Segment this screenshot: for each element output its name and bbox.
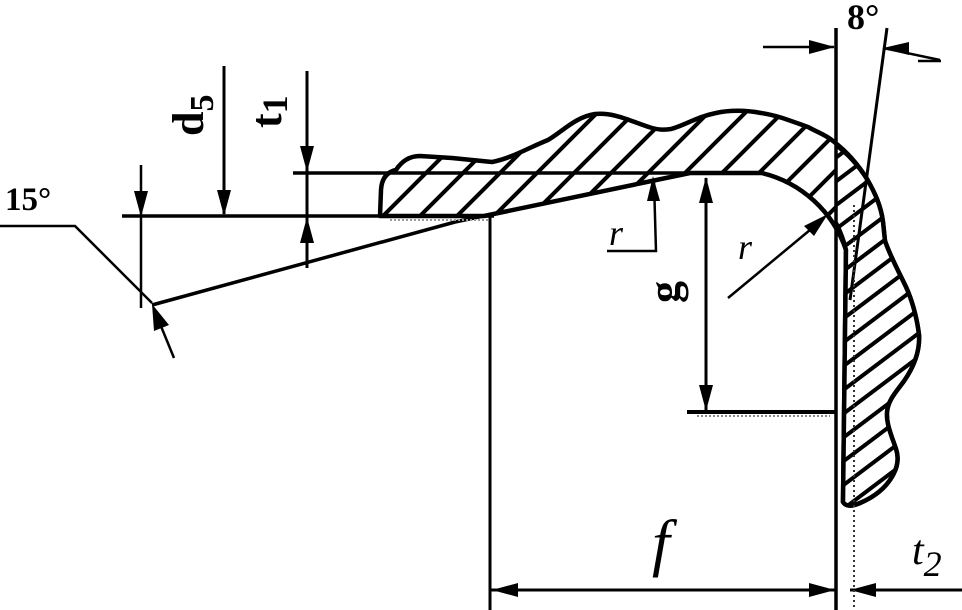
svg-text:g: g <box>640 281 689 303</box>
bead-seat 15-degree slant line <box>152 173 690 305</box>
rim cross-section body (hatched part) <box>380 111 919 506</box>
leader for 15 degrees <box>0 226 152 303</box>
svg-text:8°: 8° <box>847 0 879 37</box>
8-degree slant line <box>850 28 887 300</box>
flange region re-hatch (denser, shallower angle) <box>836 145 919 506</box>
leader r first <box>607 182 656 251</box>
leader r second <box>728 220 822 298</box>
arrow up t1 at y=216 <box>300 217 314 243</box>
baseline y=216 <box>122 214 494 218</box>
arrow left f <box>492 583 518 597</box>
t2 dimension line <box>850 589 962 592</box>
t1 dimension line <box>306 71 309 268</box>
centerline (stippled) x=854 <box>853 205 855 610</box>
f dimension line <box>491 589 836 592</box>
arrow right at x=836 <box>809 40 835 54</box>
arrow down t1 at y=173 <box>300 146 314 172</box>
t2 dimension arrow <box>850 583 876 597</box>
arrow down d5 <box>217 190 231 216</box>
flange outline redraw <box>836 145 919 506</box>
svg-text:r: r <box>738 227 753 267</box>
arrow down g <box>699 385 713 411</box>
arrow up r first <box>647 176 660 201</box>
arrow up g <box>699 177 713 203</box>
angle arrow at slant <box>156 314 174 358</box>
d5 dimension line <box>223 66 226 214</box>
svg-text:r: r <box>609 213 624 253</box>
extension line at x=141 <box>140 165 143 308</box>
arrow down at baseline x=141 <box>134 191 148 217</box>
f left extension line <box>489 215 492 610</box>
vertical extension line x=836 <box>834 28 838 610</box>
arrow up-right r second <box>804 214 828 236</box>
stipple under part bottom edge <box>390 219 488 221</box>
stipple under g bottom line <box>697 415 830 417</box>
arrow left at 8-degree line <box>883 42 909 55</box>
reference line (rim diameter) y=173 <box>293 171 762 175</box>
g bottom horizontal line <box>687 410 836 414</box>
arrow right f <box>809 583 835 597</box>
svg-text:15°: 15° <box>5 182 51 218</box>
tail of 8-degree arrow <box>883 48 940 60</box>
8-degree dimension line left <box>763 46 834 49</box>
g dimension line <box>705 178 708 410</box>
